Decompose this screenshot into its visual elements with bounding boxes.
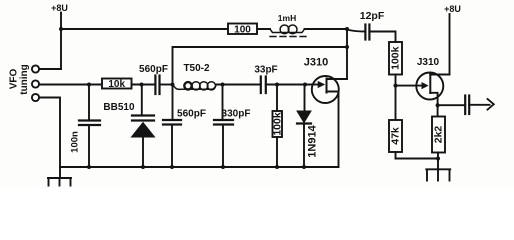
svg-text:1mH: 1mH <box>278 13 296 23</box>
svg-text:560pF: 560pF <box>139 64 168 75</box>
ground symbol left <box>48 167 71 186</box>
wire buffer ground link <box>396 158 439 160</box>
wire +8V right drop to drain <box>449 14 451 75</box>
svg-text:J310: J310 <box>417 57 440 68</box>
wire to top tuning terminal <box>39 68 61 70</box>
svg-text:+8U: +8U <box>51 3 68 13</box>
wire bottom terminal to ground rail <box>39 98 60 168</box>
svg-text:100k: 100k <box>390 46 402 70</box>
node junction dot +8V tee <box>59 27 63 31</box>
inductor L T50-2 <box>173 63 261 90</box>
node junction dot varactor branch <box>140 83 144 87</box>
wire +8V top rail <box>61 28 270 30</box>
varactor D BB510 <box>103 85 154 168</box>
svg-text:VFO: VFO <box>9 69 20 90</box>
capacitor C 33pF series <box>254 65 312 94</box>
capacitor C 100n <box>70 85 101 168</box>
svg-text:10k: 10k <box>108 79 125 90</box>
transistor Q2 J310 buffer <box>396 57 450 117</box>
wire ground rail bottom <box>60 166 339 168</box>
svg-text:100: 100 <box>234 25 251 36</box>
wire top rail right of 1mH <box>305 28 348 30</box>
node junction dot drain feedback <box>345 45 349 49</box>
svg-text:tuning: tuning <box>19 64 30 95</box>
resistor R 100 decoupling <box>228 24 257 36</box>
resistor R 100k buffer bias upper <box>389 42 402 120</box>
ground symbol right <box>426 159 450 181</box>
node junction dot top rail <box>345 27 349 31</box>
node junction dot 560pF shunt at rail <box>170 165 174 169</box>
terminal circle middle <box>32 80 39 87</box>
node output arrow <box>488 99 494 110</box>
node junction dot diode branch <box>303 83 307 87</box>
node junction dot 330pF branch <box>221 83 225 87</box>
capacitor C output <box>438 96 490 115</box>
node junction dot diode at rail <box>302 165 306 169</box>
wire drain to feedback rail <box>346 29 348 79</box>
resistor R 100k gate <box>272 85 284 168</box>
capacitor C 12pF output coupling <box>347 10 396 42</box>
svg-text:560pF: 560pF <box>177 109 206 120</box>
svg-text:330pF: 330pF <box>222 109 251 120</box>
capacitor C 330pF shunt <box>214 85 250 168</box>
svg-text:BB510: BB510 <box>103 102 135 113</box>
diode D 1N914 <box>297 85 319 168</box>
resistor R 10k <box>102 79 132 91</box>
node junction dot 330pF at rail <box>221 165 225 169</box>
svg-text:47k: 47k <box>390 127 402 145</box>
svg-text:100k: 100k <box>272 112 284 136</box>
svg-text:2k2: 2k2 <box>433 126 445 144</box>
node junction dot 100n at rail <box>87 165 91 169</box>
terminal circle top <box>32 65 39 72</box>
node junction dot buffer ground <box>436 157 440 161</box>
node junction dot 100k gate resistor branch <box>275 83 279 87</box>
svg-text:1N914: 1N914 <box>307 124 319 157</box>
wire feedback rail to drain <box>173 47 348 85</box>
wire tuning row <box>39 84 102 86</box>
transistor Q1 J310 oscillator <box>304 57 347 168</box>
node junction dot 100n branch <box>87 83 91 87</box>
svg-text:+8U: +8U <box>444 4 461 14</box>
svg-text:J310: J310 <box>304 57 328 69</box>
svg-text:T50-2: T50-2 <box>183 63 210 74</box>
node junction dot output tap <box>436 103 440 107</box>
terminal circle bottom <box>32 94 39 101</box>
svg-text:100n: 100n <box>70 131 81 153</box>
inductor L 1mH <box>270 13 307 37</box>
node VFO tuning label <box>9 64 31 95</box>
wire +8V vertical drop <box>60 13 62 70</box>
svg-text:33pF: 33pF <box>254 65 277 76</box>
wire 10k to varactor node <box>132 84 156 86</box>
node junction dot buffer gate <box>394 84 398 88</box>
svg-text:12pF: 12pF <box>360 10 385 22</box>
capacitor C 560pF series <box>139 64 173 94</box>
capacitor C 560pF shunt <box>163 85 206 168</box>
node tank left junction <box>171 83 175 87</box>
resistor R 2k2 source <box>432 117 445 159</box>
resistor R 47k buffer bias lower <box>389 120 402 159</box>
node junction dot 100k at rail <box>275 165 279 169</box>
node junction dot varactor at rail <box>141 165 145 169</box>
